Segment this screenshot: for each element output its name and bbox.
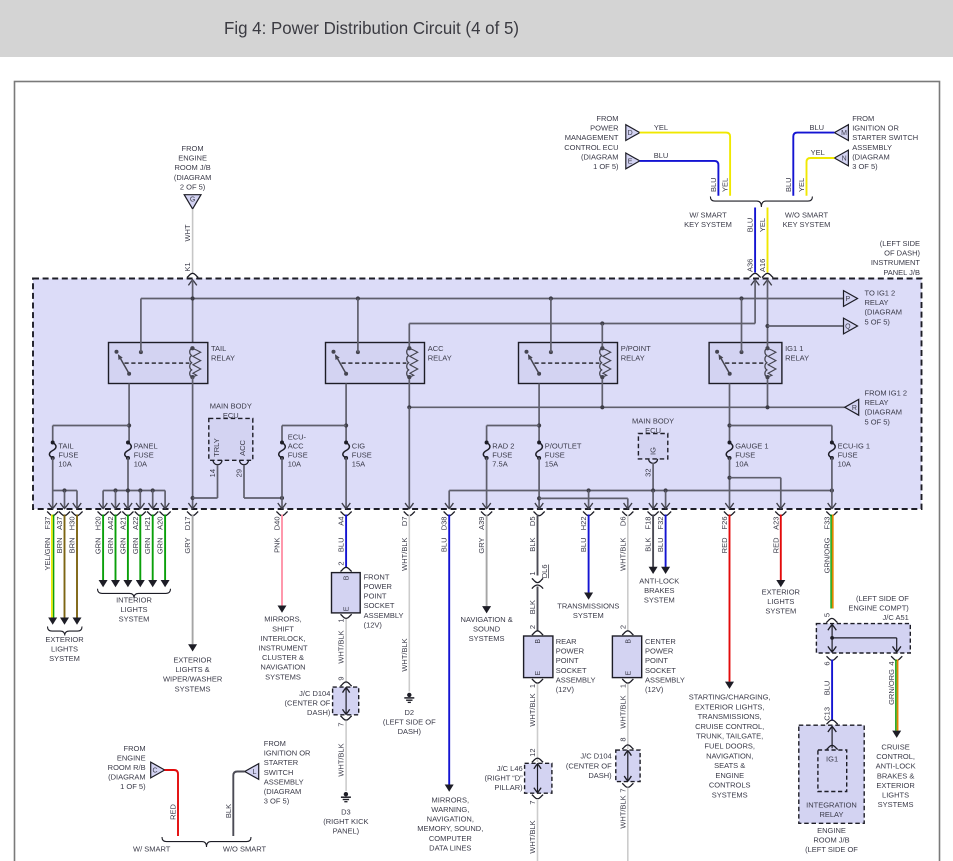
svg-text:SYSTEMS: SYSTEMS bbox=[265, 672, 301, 681]
svg-text:SWITCH: SWITCH bbox=[264, 768, 294, 777]
svg-text:WIPER/WASHER: WIPER/WASHER bbox=[163, 675, 223, 684]
svg-text:MAIN BODY: MAIN BODY bbox=[632, 416, 674, 425]
svg-text:P/OUTLET: P/OUTLET bbox=[545, 442, 582, 451]
svg-text:FROM: FROM bbox=[596, 114, 618, 123]
svg-text:W/ SMART: W/ SMART bbox=[689, 211, 727, 220]
svg-text:1 OF 5): 1 OF 5) bbox=[593, 162, 619, 171]
svg-text:BRAKES: BRAKES bbox=[644, 586, 674, 595]
svg-text:REAR: REAR bbox=[556, 637, 577, 646]
svg-text:BLU: BLU bbox=[656, 538, 665, 553]
svg-text:15A: 15A bbox=[352, 460, 365, 469]
svg-text:5 OF 5): 5 OF 5) bbox=[865, 417, 891, 426]
svg-text:MANAGEMENT: MANAGEMENT bbox=[565, 133, 619, 142]
svg-text:CRUISE CONTROL,: CRUISE CONTROL, bbox=[695, 722, 764, 731]
svg-text:(12V): (12V) bbox=[645, 685, 664, 694]
svg-text:10A: 10A bbox=[735, 460, 748, 469]
svg-text:(DIAGRAM: (DIAGRAM bbox=[865, 308, 903, 317]
svg-text:7.5A: 7.5A bbox=[492, 460, 507, 469]
svg-text:J/C A51: J/C A51 bbox=[883, 613, 909, 622]
svg-text:E: E bbox=[535, 671, 542, 676]
svg-text:MIRRORS,: MIRRORS, bbox=[432, 795, 470, 804]
svg-text:RELAY: RELAY bbox=[819, 810, 843, 819]
svg-text:POINT: POINT bbox=[556, 656, 579, 665]
svg-text:BLK: BLK bbox=[644, 538, 653, 552]
svg-text:EXTERIOR: EXTERIOR bbox=[173, 656, 212, 665]
svg-text:A16: A16 bbox=[758, 259, 767, 272]
svg-text:LIGHTS: LIGHTS bbox=[767, 597, 794, 606]
svg-text:PANEL J/B: PANEL J/B bbox=[883, 268, 920, 277]
svg-text:H20: H20 bbox=[94, 517, 103, 531]
svg-text:(RIGHT KICK: (RIGHT KICK bbox=[323, 817, 368, 826]
svg-text:NAVIGATION,: NAVIGATION, bbox=[427, 815, 474, 824]
svg-text:POWER: POWER bbox=[645, 647, 674, 656]
svg-text:4: 4 bbox=[887, 662, 896, 666]
svg-text:(CENTER OF: (CENTER OF bbox=[566, 761, 612, 770]
svg-text:SYSTEM: SYSTEM bbox=[644, 596, 675, 605]
svg-text:DL6: DL6 bbox=[540, 565, 549, 579]
svg-text:SYSTEM: SYSTEM bbox=[119, 615, 150, 624]
svg-text:POINT: POINT bbox=[364, 592, 387, 601]
svg-text:12: 12 bbox=[528, 749, 537, 757]
svg-text:W/O SMART: W/O SMART bbox=[785, 211, 829, 220]
svg-text:SYSTEMS: SYSTEMS bbox=[469, 634, 505, 643]
svg-text:STARTING/CHARGING,: STARTING/CHARGING, bbox=[689, 693, 771, 702]
svg-text:10A: 10A bbox=[288, 460, 301, 469]
svg-text:INTEGRATION: INTEGRATION bbox=[806, 801, 857, 810]
svg-text:FROM: FROM bbox=[182, 144, 204, 153]
svg-text:DASH): DASH) bbox=[307, 708, 331, 717]
svg-text:CIG: CIG bbox=[352, 442, 366, 451]
svg-text:GRY: GRY bbox=[477, 538, 486, 554]
svg-text:A37: A37 bbox=[55, 517, 64, 530]
svg-text:SYSTEM: SYSTEM bbox=[573, 611, 604, 620]
svg-text:MIRRORS,: MIRRORS, bbox=[264, 615, 302, 624]
svg-text:(CENTER OF: (CENTER OF bbox=[285, 698, 331, 707]
svg-text:M: M bbox=[841, 130, 847, 137]
svg-text:EXTERIOR: EXTERIOR bbox=[45, 635, 84, 644]
svg-text:A42: A42 bbox=[106, 517, 115, 530]
svg-text:(DIAGRAM: (DIAGRAM bbox=[174, 173, 212, 182]
svg-text:N: N bbox=[842, 156, 847, 163]
svg-text:WHT/BLK: WHT/BLK bbox=[618, 795, 627, 828]
svg-text:YEL: YEL bbox=[811, 148, 825, 157]
svg-text:FROM: FROM bbox=[264, 739, 286, 748]
svg-text:D38: D38 bbox=[440, 517, 449, 531]
svg-text:STARTER: STARTER bbox=[264, 758, 299, 767]
svg-text:GRN/ORG: GRN/ORG bbox=[822, 537, 831, 573]
svg-text:A20: A20 bbox=[156, 517, 165, 530]
svg-text:NAVIGATION: NAVIGATION bbox=[260, 663, 305, 672]
svg-text:SOUND: SOUND bbox=[473, 625, 501, 634]
svg-text:IGNITION OR: IGNITION OR bbox=[264, 749, 311, 758]
svg-text:TO IG1 2: TO IG1 2 bbox=[865, 289, 896, 298]
svg-text:2: 2 bbox=[618, 625, 627, 629]
svg-text:ASSEMBLY: ASSEMBLY bbox=[556, 675, 596, 684]
svg-text:TRUNK, TAILGATE,: TRUNK, TAILGATE, bbox=[696, 732, 763, 741]
svg-text:WHT/BLK: WHT/BLK bbox=[337, 743, 346, 776]
svg-text:BLU: BLU bbox=[654, 151, 669, 160]
svg-text:ENGINE: ENGINE bbox=[715, 771, 744, 780]
svg-text:(DIAGRAM: (DIAGRAM bbox=[865, 408, 903, 417]
svg-text:29: 29 bbox=[235, 469, 244, 477]
svg-text:P: P bbox=[845, 296, 850, 303]
svg-text:LIGHTS: LIGHTS bbox=[51, 644, 78, 653]
svg-text:GRN: GRN bbox=[118, 538, 127, 555]
svg-text:MEMORY, SOUND,: MEMORY, SOUND, bbox=[417, 824, 483, 833]
svg-text:SYSTEMS: SYSTEMS bbox=[175, 684, 211, 693]
svg-text:2: 2 bbox=[337, 562, 346, 566]
svg-text:(DIAGRAM: (DIAGRAM bbox=[852, 152, 890, 161]
svg-text:YEL: YEL bbox=[758, 218, 767, 232]
svg-text:YEL/GRN: YEL/GRN bbox=[43, 538, 52, 571]
svg-text:RELAY: RELAY bbox=[211, 354, 235, 363]
svg-text:(12V): (12V) bbox=[364, 620, 383, 629]
svg-text:ACC: ACC bbox=[288, 442, 304, 451]
svg-text:YEL: YEL bbox=[721, 178, 730, 192]
svg-text:P/POINT: P/POINT bbox=[621, 344, 651, 353]
svg-text:EXTERIOR LIGHTS,: EXTERIOR LIGHTS, bbox=[695, 702, 765, 711]
svg-text:7: 7 bbox=[618, 789, 627, 793]
svg-text:BLU: BLU bbox=[784, 177, 793, 192]
svg-text:ANTI-LOCK: ANTI-LOCK bbox=[639, 576, 679, 585]
svg-text:YEL: YEL bbox=[654, 123, 668, 132]
svg-text:(DIAGRAM: (DIAGRAM bbox=[264, 787, 302, 796]
svg-text:ECU-: ECU- bbox=[288, 433, 307, 442]
svg-text:(LEFT SIDE OF: (LEFT SIDE OF bbox=[805, 845, 858, 854]
svg-text:TAIL: TAIL bbox=[211, 344, 226, 353]
svg-text:BLK: BLK bbox=[528, 600, 537, 614]
svg-text:1: 1 bbox=[337, 619, 346, 623]
svg-text:F26: F26 bbox=[720, 517, 729, 530]
svg-text:PILLAR): PILLAR) bbox=[494, 783, 523, 792]
svg-text:FUSE: FUSE bbox=[134, 451, 154, 460]
svg-text:CRUISE: CRUISE bbox=[881, 743, 909, 752]
svg-text:FRONT: FRONT bbox=[364, 572, 390, 581]
svg-text:10A: 10A bbox=[838, 460, 851, 469]
svg-text:WHT: WHT bbox=[183, 224, 192, 241]
svg-text:ENGINE: ENGINE bbox=[817, 826, 846, 835]
svg-text:F33: F33 bbox=[822, 517, 831, 530]
svg-text:ROOM J/B: ROOM J/B bbox=[174, 163, 210, 172]
svg-text:10A: 10A bbox=[58, 460, 71, 469]
svg-text:COMPUTER: COMPUTER bbox=[429, 834, 473, 843]
svg-text:J/C D104: J/C D104 bbox=[299, 689, 330, 698]
svg-text:F18: F18 bbox=[644, 517, 653, 530]
svg-text:L: L bbox=[252, 769, 256, 776]
svg-text:C13: C13 bbox=[823, 707, 832, 721]
svg-text:E: E bbox=[625, 671, 632, 676]
svg-text:GRN: GRN bbox=[156, 538, 165, 555]
svg-text:6: 6 bbox=[823, 662, 832, 666]
svg-text:C: C bbox=[152, 768, 157, 775]
svg-text:B: B bbox=[625, 639, 632, 644]
svg-text:FUSE: FUSE bbox=[838, 451, 858, 460]
svg-text:SYSTEMS: SYSTEMS bbox=[712, 791, 748, 800]
svg-text:G: G bbox=[190, 196, 195, 203]
svg-text:F37: F37 bbox=[43, 517, 52, 530]
svg-text:LIGHTS &: LIGHTS & bbox=[176, 665, 210, 674]
svg-text:FUSE: FUSE bbox=[352, 451, 372, 460]
svg-text:RED: RED bbox=[169, 804, 178, 820]
svg-text:RED: RED bbox=[771, 537, 780, 553]
svg-text:RAD 2: RAD 2 bbox=[492, 442, 514, 451]
svg-text:(LEFT SIDE: (LEFT SIDE bbox=[880, 239, 920, 248]
svg-text:2 OF 5): 2 OF 5) bbox=[180, 182, 206, 191]
svg-text:DASH): DASH) bbox=[588, 771, 612, 780]
svg-text:D5: D5 bbox=[528, 517, 537, 527]
svg-text:(12V): (12V) bbox=[556, 685, 575, 694]
svg-text:LIGHTS: LIGHTS bbox=[120, 605, 147, 614]
svg-text:KEY SYSTEM: KEY SYSTEM bbox=[684, 220, 732, 229]
svg-text:E: E bbox=[344, 606, 351, 611]
svg-text:ENGINE: ENGINE bbox=[178, 154, 207, 163]
svg-text:FUSE: FUSE bbox=[288, 451, 308, 460]
svg-text:TAIL: TAIL bbox=[58, 442, 73, 451]
svg-text:FROM: FROM bbox=[124, 744, 146, 753]
svg-text:SYSTEM: SYSTEM bbox=[765, 607, 796, 616]
svg-text:BLU: BLU bbox=[746, 218, 755, 233]
svg-text:SOCKET: SOCKET bbox=[364, 601, 395, 610]
svg-text:Q: Q bbox=[845, 324, 851, 331]
svg-text:CONTROL,: CONTROL, bbox=[876, 752, 915, 761]
svg-text:GRN: GRN bbox=[131, 538, 140, 555]
svg-text:A22: A22 bbox=[131, 517, 140, 530]
svg-text:ROOM J/B: ROOM J/B bbox=[813, 836, 849, 845]
svg-text:POWER: POWER bbox=[556, 647, 585, 656]
svg-text:SYSTEMS: SYSTEMS bbox=[878, 800, 914, 809]
svg-text:ASSEMBLY: ASSEMBLY bbox=[645, 675, 685, 684]
svg-text:ROOM R/B: ROOM R/B bbox=[108, 763, 146, 772]
svg-text:ACC: ACC bbox=[238, 440, 247, 456]
svg-text:D6: D6 bbox=[618, 517, 627, 527]
svg-text:IG1: IG1 bbox=[826, 754, 838, 763]
svg-text:1: 1 bbox=[528, 572, 537, 576]
svg-text:5: 5 bbox=[822, 613, 831, 617]
svg-text:BRN: BRN bbox=[55, 538, 64, 554]
svg-text:BLU: BLU bbox=[579, 538, 588, 553]
svg-text:KEY SYSTEM: KEY SYSTEM bbox=[783, 220, 831, 229]
svg-text:MAIN BODY: MAIN BODY bbox=[210, 401, 252, 410]
svg-text:CENTER: CENTER bbox=[645, 637, 676, 646]
svg-text:W/ SMART: W/ SMART bbox=[133, 845, 171, 854]
svg-text:(LEFT SIDE OF: (LEFT SIDE OF bbox=[383, 718, 436, 727]
svg-text:INSTRUMENT: INSTRUMENT bbox=[871, 258, 921, 267]
svg-text:FUSE: FUSE bbox=[492, 451, 512, 460]
svg-text:10A: 10A bbox=[134, 460, 147, 469]
svg-text:A36: A36 bbox=[746, 259, 755, 272]
svg-text:FROM IG1 2: FROM IG1 2 bbox=[865, 389, 908, 398]
svg-text:WHT/BLK: WHT/BLK bbox=[400, 538, 409, 571]
svg-text:H22: H22 bbox=[579, 517, 588, 531]
svg-text:GAUGE 1: GAUGE 1 bbox=[735, 442, 768, 451]
svg-text:9: 9 bbox=[337, 677, 346, 681]
svg-text:5 OF 5): 5 OF 5) bbox=[865, 317, 891, 326]
svg-text:WHT/BLK: WHT/BLK bbox=[528, 693, 537, 726]
svg-text:IGNITION OR: IGNITION OR bbox=[852, 124, 899, 133]
svg-text:WHT/BLK: WHT/BLK bbox=[400, 638, 409, 671]
svg-text:RED: RED bbox=[720, 537, 729, 553]
svg-text:LIGHTS: LIGHTS bbox=[882, 791, 909, 800]
svg-text:INTERIOR: INTERIOR bbox=[116, 596, 152, 605]
svg-text:POWER: POWER bbox=[590, 124, 619, 133]
svg-text:TRANSMISSIONS,: TRANSMISSIONS, bbox=[698, 712, 762, 721]
svg-text:B: B bbox=[344, 575, 351, 580]
svg-text:FUSE: FUSE bbox=[545, 451, 565, 460]
svg-text:BLK: BLK bbox=[528, 538, 537, 552]
svg-text:F32: F32 bbox=[656, 517, 665, 530]
svg-text:OF DASH): OF DASH) bbox=[884, 249, 920, 258]
svg-text:D3: D3 bbox=[341, 808, 351, 817]
svg-text:NAVIGATION &: NAVIGATION & bbox=[460, 615, 512, 624]
svg-text:H30: H30 bbox=[68, 517, 77, 531]
svg-text:A21: A21 bbox=[118, 517, 127, 530]
svg-text:GRN: GRN bbox=[143, 538, 152, 555]
svg-text:H21: H21 bbox=[143, 517, 152, 531]
svg-text:DASH): DASH) bbox=[398, 727, 422, 736]
svg-text:3 OF 5): 3 OF 5) bbox=[264, 797, 290, 806]
svg-text:Fig 4: Power Distribution Circ: Fig 4: Power Distribution Circuit (4 of … bbox=[224, 18, 519, 38]
svg-text:PNK: PNK bbox=[273, 538, 282, 553]
svg-text:D2: D2 bbox=[405, 708, 415, 717]
svg-text:D17: D17 bbox=[183, 517, 192, 531]
svg-text:WHT/BLK: WHT/BLK bbox=[618, 695, 627, 728]
svg-text:DATA LINES: DATA LINES bbox=[429, 843, 471, 852]
svg-text:NAVIGATION,: NAVIGATION, bbox=[706, 751, 753, 760]
svg-text:TRLY: TRLY bbox=[212, 438, 221, 457]
svg-text:BLU: BLU bbox=[709, 177, 718, 192]
svg-text:1: 1 bbox=[528, 684, 537, 688]
svg-text:FROM: FROM bbox=[852, 114, 874, 123]
svg-text:ASSEMBLY: ASSEMBLY bbox=[852, 143, 892, 152]
svg-text:BRN: BRN bbox=[68, 538, 77, 554]
svg-text:BLK: BLK bbox=[224, 804, 233, 818]
svg-text:A39: A39 bbox=[477, 517, 486, 530]
svg-text:CLUSTER &: CLUSTER & bbox=[262, 653, 304, 662]
svg-text:32: 32 bbox=[644, 469, 653, 477]
svg-text:BRAKES &: BRAKES & bbox=[877, 771, 915, 780]
svg-text:BLU: BLU bbox=[337, 538, 346, 553]
svg-text:ASSEMBLY: ASSEMBLY bbox=[264, 777, 304, 786]
svg-text:WHT/BLK: WHT/BLK bbox=[618, 538, 627, 571]
svg-text:1 OF 5): 1 OF 5) bbox=[120, 782, 146, 791]
svg-text:ACC: ACC bbox=[428, 344, 444, 353]
svg-text:RELAY: RELAY bbox=[428, 354, 452, 363]
svg-text:(DIAGRAM: (DIAGRAM bbox=[581, 152, 619, 161]
svg-text:WHT/BLK: WHT/BLK bbox=[337, 630, 346, 663]
svg-text:3 OF 5): 3 OF 5) bbox=[852, 162, 878, 171]
svg-text:E: E bbox=[628, 159, 633, 166]
svg-text:CONTROLS: CONTROLS bbox=[709, 781, 751, 790]
svg-text:(DIAGRAM: (DIAGRAM bbox=[108, 773, 146, 782]
svg-text:(LEFT SIDE OF: (LEFT SIDE OF bbox=[856, 594, 909, 603]
svg-text:(RIGHT “D”: (RIGHT “D” bbox=[484, 774, 523, 783]
svg-text:PANEL): PANEL) bbox=[333, 827, 360, 836]
svg-text:SEATS &: SEATS & bbox=[714, 761, 745, 770]
svg-text:INTERLOCK,: INTERLOCK, bbox=[260, 634, 305, 643]
svg-text:GRY: GRY bbox=[183, 538, 192, 554]
svg-text:IG: IG bbox=[649, 447, 658, 455]
svg-text:SOCKET: SOCKET bbox=[645, 666, 676, 675]
svg-text:R: R bbox=[852, 405, 857, 412]
svg-text:8: 8 bbox=[618, 738, 627, 742]
svg-text:BLU: BLU bbox=[823, 681, 832, 696]
svg-text:7: 7 bbox=[337, 723, 346, 727]
svg-text:IG1 1: IG1 1 bbox=[785, 344, 803, 353]
svg-text:RELAY: RELAY bbox=[865, 398, 889, 407]
svg-text:STARTER SWITCH: STARTER SWITCH bbox=[852, 133, 918, 142]
svg-text:ENGINE COMPT): ENGINE COMPT) bbox=[848, 604, 909, 613]
svg-text:TRANSMISSIONS: TRANSMISSIONS bbox=[557, 601, 619, 610]
svg-text:J/C D104: J/C D104 bbox=[580, 752, 611, 761]
svg-text:FUEL DOORS,: FUEL DOORS, bbox=[704, 742, 755, 751]
svg-text:ECU-IG 1: ECU-IG 1 bbox=[838, 442, 871, 451]
svg-text:WARNING,: WARNING, bbox=[431, 805, 469, 814]
svg-text:W/O SMART: W/O SMART bbox=[223, 845, 267, 854]
svg-text:RELAY: RELAY bbox=[785, 354, 809, 363]
svg-text:FUSE: FUSE bbox=[735, 451, 755, 460]
svg-text:GRN: GRN bbox=[94, 538, 103, 555]
svg-text:D7: D7 bbox=[400, 517, 409, 527]
svg-text:14: 14 bbox=[208, 469, 217, 477]
svg-text:ANTI-LOCK: ANTI-LOCK bbox=[876, 762, 916, 771]
svg-text:GRN/ORG: GRN/ORG bbox=[887, 669, 896, 705]
svg-text:SYSTEM: SYSTEM bbox=[49, 654, 80, 663]
svg-text:EXTERIOR: EXTERIOR bbox=[876, 781, 915, 790]
svg-text:1: 1 bbox=[618, 684, 627, 688]
svg-text:ENGINE: ENGINE bbox=[117, 753, 146, 762]
svg-text:K1: K1 bbox=[183, 262, 192, 271]
svg-text:D: D bbox=[628, 130, 633, 137]
svg-text:7: 7 bbox=[528, 801, 537, 805]
svg-text:D40: D40 bbox=[273, 517, 282, 531]
svg-text:BLU: BLU bbox=[810, 123, 825, 132]
svg-text:POINT: POINT bbox=[645, 656, 668, 665]
svg-text:A23: A23 bbox=[771, 517, 780, 530]
svg-text:GRN: GRN bbox=[106, 538, 115, 555]
svg-text:SOCKET: SOCKET bbox=[556, 666, 587, 675]
svg-text:15A: 15A bbox=[545, 460, 558, 469]
svg-text:POWER: POWER bbox=[364, 582, 393, 591]
svg-text:RELAY: RELAY bbox=[865, 298, 889, 307]
svg-text:FUSE: FUSE bbox=[58, 451, 78, 460]
svg-text:PANEL: PANEL bbox=[134, 442, 158, 451]
svg-text:INSTRUMENT: INSTRUMENT bbox=[258, 644, 308, 653]
svg-text:A4: A4 bbox=[337, 517, 346, 526]
svg-text:BLU: BLU bbox=[440, 538, 449, 553]
svg-text:B: B bbox=[535, 639, 542, 644]
svg-text:J/C L46: J/C L46 bbox=[497, 764, 523, 773]
svg-text:EXTERIOR: EXTERIOR bbox=[762, 588, 801, 597]
svg-text:SHIFT: SHIFT bbox=[272, 624, 294, 633]
svg-text:YEL: YEL bbox=[797, 178, 806, 192]
svg-text:2: 2 bbox=[528, 625, 537, 629]
svg-text:RELAY: RELAY bbox=[621, 354, 645, 363]
svg-text:ASSEMBLY: ASSEMBLY bbox=[364, 611, 404, 620]
svg-text:WHT/BLK: WHT/BLK bbox=[528, 820, 537, 853]
svg-text:CONTROL ECU: CONTROL ECU bbox=[564, 143, 618, 152]
